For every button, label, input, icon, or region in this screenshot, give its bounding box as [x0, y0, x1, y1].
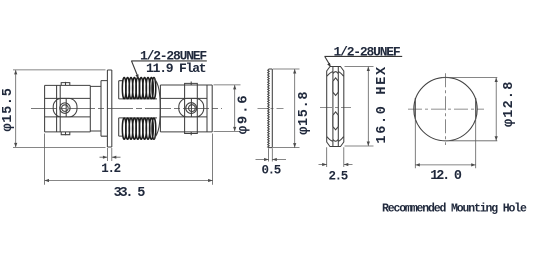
dia12.8 arrows [495, 78, 498, 83]
12.0 arrows [415, 163, 420, 166]
svg-text:φ15.8: φ15.8 [297, 91, 312, 135]
1.2 arrows [103, 156, 108, 159]
label leader left arrowhead [135, 74, 138, 79]
nut facet top [333, 78, 339, 96]
dia12.8 extension lines [442, 78, 497, 141]
nut middle face dome lines [333, 72, 338, 142]
left bayonet groove lines [57, 85, 61, 131]
svg-text:φ9.6: φ9.6 [236, 93, 252, 134]
thread relief bottom [119, 118, 124, 136]
flange plate [107, 70, 111, 147]
right bayonet stud top [185, 82, 198, 86]
svg-text:16.0 HEX: 16.0 HEX [375, 65, 390, 143]
left bayonet pin inner circle [62, 105, 69, 112]
1.2 extension lines [107, 148, 111, 161]
16.0 HEX dimension line [367, 67, 369, 147]
right bayonet groove lines [185, 85, 198, 132]
left bayonet slot edge [65, 99, 67, 117]
step section 2 [90, 86, 101, 132]
right bayonet slot band lines [160, 98, 207, 117]
label leader right arrowhead [327, 63, 331, 68]
2.5 arrows [322, 163, 327, 166]
left BNC body [45, 85, 91, 131]
12.0 extension lines [415, 119, 475, 169]
svg-text:Recommended Mounting Hole: Recommended Mounting Hole [382, 202, 527, 215]
33.5 arrows [45, 179, 50, 182]
svg-text:12. 0: 12. 0 [430, 169, 462, 184]
dia15.8 arrows [293, 69, 296, 74]
svg-text:0.5: 0.5 [262, 164, 281, 178]
dia9.6 dimension line [234, 85, 236, 131]
hole left flat [414, 98, 416, 119]
left bayonet slot pillow [53, 98, 77, 117]
svg-text:11.9 Flat: 11.9 Flat [146, 61, 206, 76]
washer centerline [258, 107, 284, 109]
0.5 dimension tails [256, 159, 287, 161]
label leader right [325, 56, 331, 65]
nut internal lines [333, 67, 338, 146]
hole circle [414, 77, 477, 140]
main view centerline [31, 107, 222, 109]
svg-text:φ15.5: φ15.5 [1, 87, 16, 131]
dia9.6 extension lines [214, 85, 241, 131]
right end face [211, 85, 213, 132]
16.0 HEX extension lines [345, 67, 374, 147]
svg-text:33. 5: 33. 5 [114, 186, 146, 201]
svg-text:1/2-28UNEF: 1/2-28UNEF [334, 44, 401, 59]
svg-text:2.5: 2.5 [329, 170, 348, 184]
label underline right [325, 55, 403, 57]
right BNC body [160, 85, 212, 132]
step section 3 shoulder [101, 81, 107, 137]
left bayonet stud top [61, 82, 70, 86]
nut chamfer arcs [327, 72, 344, 142]
right end ring [206, 85, 208, 132]
right bayonet pin inner circle [189, 105, 196, 112]
thread coils bottom band [122, 118, 155, 139]
12.0 dimension line [415, 164, 475, 166]
left bayonet slot band lines [45, 98, 91, 117]
hole right flat [475, 98, 477, 119]
16.0 HEX arrows [367, 67, 370, 72]
dia15.8 dimension line [294, 69, 296, 148]
hole vertical centerline [445, 73, 447, 145]
svg-text:1.2: 1.2 [101, 162, 120, 176]
nut facet bottom [333, 112, 339, 130]
thread band inner lines [119, 99, 157, 118]
left bayonet stud bottom [61, 132, 70, 136]
dimension thin lines [13, 70, 241, 185]
svg-text:φ12.8: φ12.8 [502, 80, 517, 127]
dia15.5 extension lines [13, 70, 106, 147]
label underline left [131, 60, 207, 62]
33.5 extension lines [45, 134, 213, 185]
nut centerline [320, 107, 351, 109]
0.5 arrows [264, 158, 269, 161]
arrowheads main view [14, 70, 236, 182]
right bayonet slot pillow [179, 98, 204, 117]
dia12.8 dimension line [495, 78, 497, 141]
2.5 dimension tails [319, 164, 353, 166]
33.5 dimension line [45, 180, 213, 182]
right bayonet stud bottom [185, 132, 198, 135]
0.5 extension lines [269, 148, 273, 161]
nut outline [327, 67, 344, 147]
dia15.5 dimension line [15, 70, 17, 147]
thread runout arc [154, 78, 161, 139]
left bayonet pin outer circle [60, 103, 70, 113]
thread coils top band [122, 78, 155, 99]
washer serrated edge [268, 69, 270, 148]
right bayonet pin outer circle [186, 103, 197, 114]
dia9.6 arrows [233, 85, 236, 90]
label leader left [132, 61, 138, 77]
hole horizontal centerline [408, 108, 484, 110]
1.2 dimension tails [100, 156, 121, 158]
2.5 extension lines [327, 147, 344, 167]
dia15.8 extension lines [273, 69, 300, 148]
dia15.5 arrows [14, 70, 17, 75]
right bayonet slot edge [190, 99, 192, 117]
thread relief top [119, 81, 124, 99]
washer body [269, 69, 273, 148]
